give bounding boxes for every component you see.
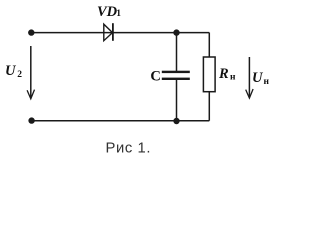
svg-text:U: U	[5, 63, 17, 79]
svg-text:C: C	[150, 68, 160, 84]
svg-text:н: н	[230, 72, 236, 82]
svg-text:Рис 1.: Рис 1.	[106, 141, 152, 157]
svg-text:н: н	[264, 77, 270, 87]
svg-text:R: R	[218, 66, 229, 82]
svg-text:2: 2	[17, 70, 22, 80]
svg-text:U: U	[252, 70, 264, 86]
svg-text:1: 1	[116, 9, 121, 19]
svg-text:VD: VD	[97, 4, 118, 20]
